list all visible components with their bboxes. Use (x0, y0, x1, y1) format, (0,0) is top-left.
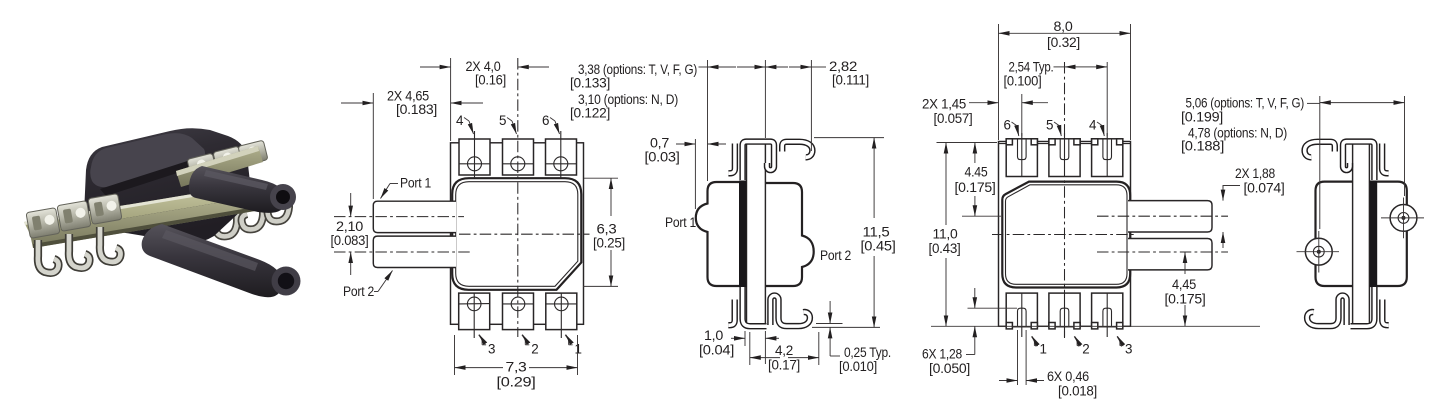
svg-text:7,3: 7,3 (506, 360, 527, 375)
dim 6,3 extension lines (584, 177, 618, 179)
svg-text:[0.16]: [0.16] (475, 73, 506, 88)
svg-text:[0.45]: [0.45] (861, 239, 896, 254)
pin 1 pad (bottom row right) (546, 293, 577, 330)
svg-text:11,5: 11,5 (863, 225, 890, 240)
photo: tube 1 bore (276, 190, 290, 204)
photo: rear pcb edge sliver (176, 146, 263, 187)
svg-text:[0.175]: [0.175] (1165, 292, 1206, 307)
dim 6,3 arrows (610, 178, 612, 216)
bottom front pin strip (728, 300, 734, 326)
photo: front clamp 2 (57, 201, 91, 232)
svg-text:1: 1 (575, 342, 582, 357)
dim 0,25 lower arrow with elbow (829, 327, 831, 356)
pin 5 pad (top row mid) (503, 139, 534, 175)
svg-text:Port 1: Port 1 (665, 215, 696, 230)
pin 6 hole (554, 157, 568, 171)
leader from 3,38 text to dim line (699, 66, 708, 68)
dim 6X 1,28 upper arrow (974, 288, 976, 308)
dim 5,06 line with arrows (1320, 102, 1352, 104)
right housing with port 2 bump (766, 183, 814, 286)
svg-text:[0.057]: [0.057] (934, 111, 973, 126)
dim 2,82 arrows (765, 66, 788, 68)
photo: front pcb bar top (24, 184, 258, 234)
photo: rear pin 1 (216, 208, 237, 236)
photo: front pcb bar face (30, 196, 261, 248)
dim 11,5 top extension line (814, 137, 884, 139)
dim 2X 4,0 arrows (420, 66, 451, 68)
dim 3,38 arrows (708, 66, 737, 68)
svg-text:[0.43]: [0.43] (929, 241, 961, 256)
svg-text:2X 1,45: 2X 1,45 (922, 97, 966, 112)
port 1 boss center dot (1402, 216, 1406, 220)
svg-text:[0.111]: [0.111] (832, 73, 869, 88)
dim 8,0 line with arrows (999, 32, 1049, 34)
pin 2 hole (511, 297, 525, 311)
view 4: right end view (1181, 96, 1424, 327)
pin 4 pad (top row left) (459, 139, 490, 175)
port1 centerline extension left (962, 215, 1001, 217)
svg-text:6: 6 (542, 113, 549, 128)
dim 0,7 extension line at bump apex (694, 139, 696, 209)
photo: front clamp 1 (26, 208, 60, 239)
top front pin strip (728, 144, 735, 174)
tube 2 centerline (bottom view) (1097, 251, 1228, 253)
svg-text:6,3: 6,3 (597, 222, 617, 237)
pin 3 hole (467, 297, 481, 311)
port 2 centerline (334, 251, 470, 253)
pin label 3 (bottom view) (1117, 337, 1120, 346)
svg-text:[0.183]: [0.183] (396, 102, 437, 117)
photo: body wedge ridge shadow (100, 157, 205, 196)
svg-text:4,2: 4,2 (775, 343, 793, 358)
pad block top row cx 1107.2 (1092, 133, 1123, 177)
port 2 tube (bottom view) (1128, 239, 1212, 270)
svg-text:4,45: 4,45 (1172, 277, 1196, 292)
svg-text:6X 1,28: 6X 1,28 (922, 347, 962, 362)
body inner outline (bottom view) (1006, 185, 1128, 284)
svg-text:[0.083]: [0.083] (331, 233, 369, 248)
svg-text:5,06 (options: T, V, F, G): 5,06 (options: T, V, F, G) (1186, 96, 1305, 111)
svg-text:6X 0,46: 6X 0,46 (1047, 369, 1089, 384)
die attach dark strip (end view) (1370, 181, 1377, 288)
view 3: bottom view (992, 62, 1228, 338)
dim 2,54 line with arrows (1065, 66, 1079, 68)
svg-text:[0.122]: [0.122] (570, 106, 610, 121)
svg-text:[0.050]: [0.050] (929, 361, 970, 376)
pin 2 pad (bottom row mid) (503, 293, 534, 330)
port 1 tube (bottom view) (1128, 201, 1212, 232)
pad block bottom row cx 1107.2 (1092, 293, 1123, 337)
dim 4,45 right arrows (1184, 252, 1186, 274)
dim 2X 4,65 arrows (341, 102, 373, 104)
dim 4.45 top extension line (937, 142, 998, 144)
photo: molded body main block (84, 128, 250, 243)
svg-text:[0.17]: [0.17] (768, 358, 800, 373)
dim 6X 0,46 arrows (999, 380, 1018, 382)
svg-text:[0.133]: [0.133] (570, 76, 610, 91)
svg-text:1: 1 (1040, 342, 1047, 357)
dim 0,7 arrows (676, 143, 695, 145)
seating plane line (812, 326, 880, 328)
svg-text:[0.199]: [0.199] (1181, 110, 1223, 125)
photo: port tube 1 (upper right) (189, 166, 286, 213)
pcb outline (bottom view) (999, 142, 1131, 327)
svg-text:[0.100]: [0.100] (1004, 74, 1042, 89)
pcb left edge line (746, 140, 748, 327)
pin 6 pad (top row right) (546, 139, 577, 175)
pin 1 centerline (560, 293, 562, 338)
body horizontal centerline (459, 233, 590, 235)
port 1 boss inner circle (1398, 213, 1409, 224)
die attach dark strip (739, 181, 746, 288)
left housing with port 1 bump (696, 182, 747, 286)
pin underside line (816, 323, 843, 325)
dim 7,3 line with arrows (455, 367, 504, 369)
dim 2X 4,65 extension line at tube end (372, 93, 374, 199)
svg-text:[0.04]: [0.04] (699, 343, 734, 358)
port 2 boss center dot (1317, 250, 1321, 254)
dim 6X 1,28 slot-top extension (968, 307, 1018, 309)
photo: rear pin 2 (242, 201, 263, 229)
svg-text:Port 2: Port 2 (343, 284, 374, 299)
svg-text:2: 2 (531, 342, 538, 357)
pin label 1 (565, 335, 568, 345)
pin 1 slot edge extension lines (1017, 330, 1019, 385)
top pin crook (end view) (1305, 142, 1335, 158)
leader from 5,06 text to dim line (1307, 102, 1320, 104)
svg-text:5: 5 (499, 113, 506, 128)
bottom pin left leg and foot (743, 287, 767, 326)
photo: tube 2 bore (278, 273, 294, 289)
photo: body top wedge highlight (90, 133, 205, 187)
pin 4 centerline (474, 131, 476, 178)
svg-text:[0.175]: [0.175] (955, 180, 996, 195)
left housing (end view) (1316, 182, 1353, 286)
dim 3,38 extension lines (707, 60, 709, 181)
pad block bottom row cx 1064.5 (1049, 293, 1080, 337)
svg-text:0,7: 0,7 (650, 136, 669, 151)
svg-text:1,0: 1,0 (704, 328, 723, 343)
svg-text:2,10: 2,10 (336, 219, 363, 234)
port 1 centerline (334, 216, 464, 218)
pin 1 hole (555, 297, 569, 311)
dim 8,0 extension lines (998, 24, 1000, 140)
pin label 3 (479, 335, 482, 345)
dim 11,0 arrows (945, 143, 947, 226)
port 2 boss inner circle (1313, 246, 1324, 257)
dim 2,10 upper arrow (350, 193, 352, 217)
dim 2,54 leader (1054, 66, 1065, 68)
bottom pin arch and foot with curl (end view) (1307, 296, 1347, 327)
body outer outline with chamfer (452, 178, 581, 290)
dim 4,2 line with arrows (750, 357, 780, 359)
top pin staple (end view) (1343, 142, 1374, 180)
pin label 2 (bottom view) (1074, 337, 1077, 346)
svg-text:Port 2: Port 2 (820, 248, 851, 263)
svg-text:4: 4 (1089, 118, 1097, 133)
pcb bottom extension line long (931, 325, 1260, 327)
port 1 boss crosshair (1381, 217, 1424, 219)
mirrored pin set (1305, 142, 1389, 327)
svg-text:2,54 Typ.: 2,54 Typ. (1009, 60, 1054, 75)
pin 3 centerline (473, 293, 475, 338)
photo: front pin 3 (100, 227, 121, 262)
dim 2,54 extension line pin4 (1106, 62, 1108, 136)
photo: tube 2 highlight (162, 230, 258, 271)
pin 5 hole (511, 157, 525, 171)
top right pin crook (782, 142, 812, 158)
port 1 boss outer circle (1390, 205, 1417, 232)
port 2 boss outer circle (1305, 238, 1332, 265)
pcb left edge line (end view) (1352, 140, 1354, 327)
svg-text:3: 3 (1125, 342, 1132, 357)
tube 1 centerline (bottom view) (1097, 215, 1228, 217)
svg-text:4.45: 4.45 (965, 165, 988, 180)
port 2 tube (top view) (373, 236, 456, 267)
body inner outline (456, 182, 578, 287)
pin 3 pad (bottom row left) (459, 293, 490, 330)
svg-text:[0.074]: [0.074] (1244, 181, 1285, 196)
svg-text:[0.010]: [0.010] (839, 359, 877, 374)
port 2 boss crosshair (1297, 251, 1340, 253)
svg-text:2: 2 (1082, 342, 1089, 357)
pad block top row cx 1064.5 (1049, 133, 1080, 177)
dim 1,0 extension lines (744, 331, 746, 346)
pin 6 centerline (560, 131, 562, 178)
body outer outline with chamfer (bottom view) (1002, 182, 1130, 288)
dim 2X 1,88 leader (1223, 186, 1240, 189)
dim 2X 1,45 arrows (969, 102, 999, 104)
pin label 1 (bottom view) (1032, 337, 1035, 346)
view 3 dimensions (922, 19, 1285, 399)
svg-text:[0.188]: [0.188] (1181, 139, 1224, 154)
dim 2,10 lower arrow (350, 252, 352, 275)
photo: front clamp 3 (88, 194, 122, 225)
svg-text:3: 3 (488, 342, 495, 357)
bottom front pin strip (end view) (1382, 300, 1388, 326)
dim 4,2 extension lines (749, 332, 751, 365)
svg-text:2X 1,88: 2X 1,88 (1235, 166, 1275, 181)
pcb outline (top view) (451, 143, 584, 324)
body vertical centerline (517, 58, 519, 337)
photo: front pin 1 (38, 240, 59, 273)
dim 11,5 arrows (873, 138, 875, 218)
svg-text:6: 6 (1004, 118, 1011, 133)
product photo: sensor package (24, 128, 301, 297)
bottom pin leg and foot (end view) (1351, 287, 1375, 326)
dim 2X 4,0 extension line at body left (450, 58, 452, 141)
dim 2X 1,88 lower arrow (1222, 232, 1224, 248)
view 2: side view (570, 59, 896, 374)
dim 4.45 arrows (974, 143, 976, 164)
photo: rear clamp 2 (213, 146, 243, 172)
top pin staple over pcb (743, 142, 774, 180)
pcb inner line under top pads (999, 143, 1131, 145)
right housing (end view) (1369, 182, 1407, 286)
photo: rear pin 3 (268, 194, 289, 221)
bottom pin arch and right foot with curl (770, 296, 810, 327)
svg-text:4: 4 (456, 113, 464, 128)
pin 4 hole (468, 157, 482, 171)
pad block bottom row cx 1021.8 (1006, 293, 1037, 337)
pad block top row cx 1021.8 (1006, 133, 1037, 177)
svg-text:Port 1: Port 1 (400, 176, 431, 191)
top front pin strip (end view) (1382, 144, 1389, 174)
port 1 tube (top view) (373, 201, 456, 232)
photo: port tube 2 (lower) (142, 224, 283, 297)
dim 2X 1,45 extension line pin6 (1021, 94, 1023, 136)
pcb right edge line (764, 140, 766, 327)
svg-text:0,25 Typ.: 0,25 Typ. (844, 345, 891, 360)
svg-text:8,0: 8,0 (1054, 19, 1073, 34)
dim 6X 1,28 lower arrow with elbow (974, 326, 976, 354)
pcb right edge line (end view) (1368, 140, 1370, 327)
photo: rear clamp 1 (187, 153, 217, 179)
body horizontal centerline (bottom view) (992, 234, 1136, 236)
photo: tube 1 end face (270, 184, 296, 210)
pin label 2 (522, 335, 525, 345)
dim 2,82 leader and text (811, 66, 826, 68)
photo: tube 1 highlight (204, 170, 268, 190)
dim 1,0 arrows (731, 337, 745, 339)
dim 5,06 extension lines (1319, 96, 1321, 229)
view 1: top view (331, 58, 626, 390)
photo: front pin 2 (69, 234, 90, 268)
svg-text:[0.018]: [0.018] (1058, 384, 1097, 399)
body vertical centerline (bottom view) (1064, 62, 1066, 338)
photo: tube 2 end face (272, 267, 301, 296)
svg-text:[0.25]: [0.25] (593, 236, 625, 251)
svg-text:5: 5 (1046, 118, 1053, 133)
photo: rear clamp 3 (238, 140, 268, 166)
dim 7,3 extension lines (454, 335, 456, 375)
dim 0,25 upper arrow (829, 301, 831, 324)
svg-text:[0.29]: [0.29] (497, 375, 536, 390)
svg-text:11,0: 11,0 (933, 227, 958, 242)
svg-text:[0.32]: [0.32] (1047, 35, 1080, 50)
svg-text:[0.03]: [0.03] (645, 150, 680, 165)
